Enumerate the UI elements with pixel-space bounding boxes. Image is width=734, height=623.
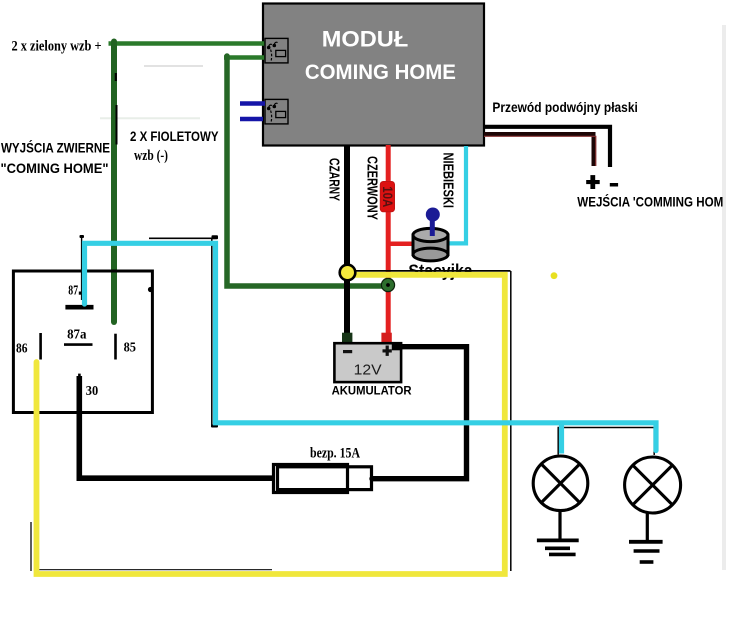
wire green output (horizontal into connector J1 bottom) — [224, 55, 266, 60]
ignition switch Stacyjka cylinder — [413, 228, 448, 261]
svg-text:"COMING HOME": "COMING HOME" — [1, 160, 109, 176]
relay case junction dot — [148, 287, 153, 292]
terminal plus symbol (wejscia) — [586, 175, 600, 189]
svg-text:Przewód podwójny płaski: Przewód podwójny płaski — [492, 99, 637, 115]
connector J2 on module (bottom) — [265, 99, 288, 124]
svg-text:wzb (-): wzb (-) — [134, 148, 168, 164]
svg-text:CZERWONY: CZERWONY — [364, 156, 381, 220]
svg-text:2 X FIOLETOWY: 2 X FIOLETOWY — [130, 128, 219, 144]
stray black line beside green wire — [116, 105, 118, 145]
battery minus sign — [343, 350, 352, 353]
junction node green on red wire — [381, 278, 394, 291]
ground symbol lamp L2 — [629, 542, 663, 562]
lamp L2 — [625, 457, 681, 513]
ghost black corner blob at cyan corner — [212, 235, 219, 239]
ghost black line above cyan horizontal (left) — [149, 237, 216, 239]
wire cyan branch to lamp L1 — [559, 423, 564, 454]
relay pin 30 contact bar — [78, 374, 81, 395]
module U1 MODUL COMING HOME box — [263, 4, 484, 146]
lamp L1 — [533, 456, 588, 511]
maroon wire red fringe — [484, 136, 596, 166]
ghost black line left of lamp L1 cyan drop — [557, 428, 559, 455]
wire blue stub upper (2x fioletowy) — [240, 101, 265, 106]
svg-text:10A: 10A — [380, 186, 396, 207]
svg-text:85: 85 — [124, 341, 136, 356]
relay pin 86 contact bar — [39, 333, 42, 360]
battery B1 12V box — [334, 343, 401, 382]
svg-text:MODUŁ: MODUŁ — [322, 26, 409, 51]
fuse F2 bezp 15A symbol — [274, 465, 372, 493]
battery positive terminal (red) — [381, 333, 391, 344]
svg-text:NIEBIESKI: NIEBIESKI — [440, 153, 457, 209]
faint erased line upper — [144, 65, 203, 67]
svg-text:WEJŚCIA 'COMMING HOM: WEJŚCIA 'COMMING HOM — [577, 192, 723, 209]
svg-text:bezp. 15A: bezp. 15A — [310, 445, 360, 461]
wire black flat-pair from module right — [484, 127, 610, 167]
wire red CZERWONY from module to battery — [386, 145, 391, 334]
stray thin black line above bottom yellow — [34, 569, 272, 571]
wire cyan from relay pin 87 long loop to lamps — [85, 243, 657, 450]
stray thin black line right of yellow vertical — [510, 271, 512, 571]
stray black tick on green wire upper — [115, 73, 117, 81]
svg-text:AKUMULATOR: AKUMULATOR — [332, 385, 413, 397]
svg-text:WYJŚCIA ZWIERNE: WYJŚCIA ZWIERNE — [1, 139, 110, 156]
relay pin 87 contact bar — [65, 305, 93, 310]
lamp L1 stem — [558, 510, 561, 539]
relay pin 87a contact bar — [64, 343, 93, 346]
faint erased line lower — [100, 117, 200, 119]
lamp L2 stem — [646, 512, 649, 540]
stray thin black line above yellow horizontal — [352, 270, 511, 272]
ghost black line left of cyan mid vertical — [211, 239, 213, 427]
wire green vertical 1 (to relay pin 87a) — [111, 42, 117, 323]
ghost black line left of cyan right elbow vertical — [653, 428, 655, 456]
ghost black line left of left cyan vertical — [81, 237, 83, 300]
wire red into stacyjka — [388, 242, 416, 247]
wire black CZARNY from module to battery — [344, 145, 350, 334]
terminal minus symbol (wejscia) — [610, 183, 618, 187]
svg-text:30: 30 — [86, 384, 98, 399]
wire green vertical 2 + horizontal to node on red wire — [227, 56, 388, 286]
svg-text:12V: 12V — [354, 363, 382, 379]
svg-text:87a: 87a — [67, 327, 86, 342]
stray thin black line left of yellow vertical (bottom left) — [30, 522, 32, 571]
ignition key ball — [426, 208, 440, 222]
right page-edge band — [722, 25, 726, 570]
connector J1 on module (top) — [265, 38, 288, 63]
wire black from relay pin 30 to fuse — [79, 376, 274, 478]
svg-text:86: 86 — [16, 341, 28, 356]
svg-text:CZARNY: CZARNY — [326, 158, 343, 201]
ground symbol lamp L1 — [537, 540, 579, 554]
relay K1 box — [13, 271, 152, 413]
ghost black tick at left cyan corner — [80, 235, 85, 238]
ghost black line under cyan bottom horizontal (right part) — [558, 427, 656, 429]
wire blue stub lower — [240, 117, 263, 122]
wire cyan NIEBIESKI from module to stacyjka — [447, 146, 466, 243]
wire maroon flat-pair from module right — [484, 134, 594, 166]
ghost black tick at cyan mid bottom corner — [211, 425, 218, 428]
stray yellow dot — [551, 272, 558, 279]
wire black from battery plus to fuse (right loop) — [372, 347, 467, 479]
battery negative terminal (dark green) — [342, 333, 352, 344]
wire yellow loop: node - right - down - bottom - up to relay pin 86 — [37, 275, 505, 574]
junction node yellow on black wire — [340, 265, 356, 281]
fuse F1 10A on red wire — [380, 182, 396, 212]
wire green output + (horizontal into connector J1 top) — [109, 41, 267, 46]
battery plus sign — [383, 346, 392, 356]
svg-text:COMING HOME: COMING HOME — [305, 61, 456, 84]
svg-text:87: 87 — [68, 284, 78, 299]
battery plus junction blob — [392, 344, 402, 350]
svg-text:2 x zielony wzb +: 2 x zielony wzb + — [12, 39, 102, 55]
ignition key stem — [430, 218, 435, 236]
relay pin 85 contact bar — [114, 334, 117, 360]
